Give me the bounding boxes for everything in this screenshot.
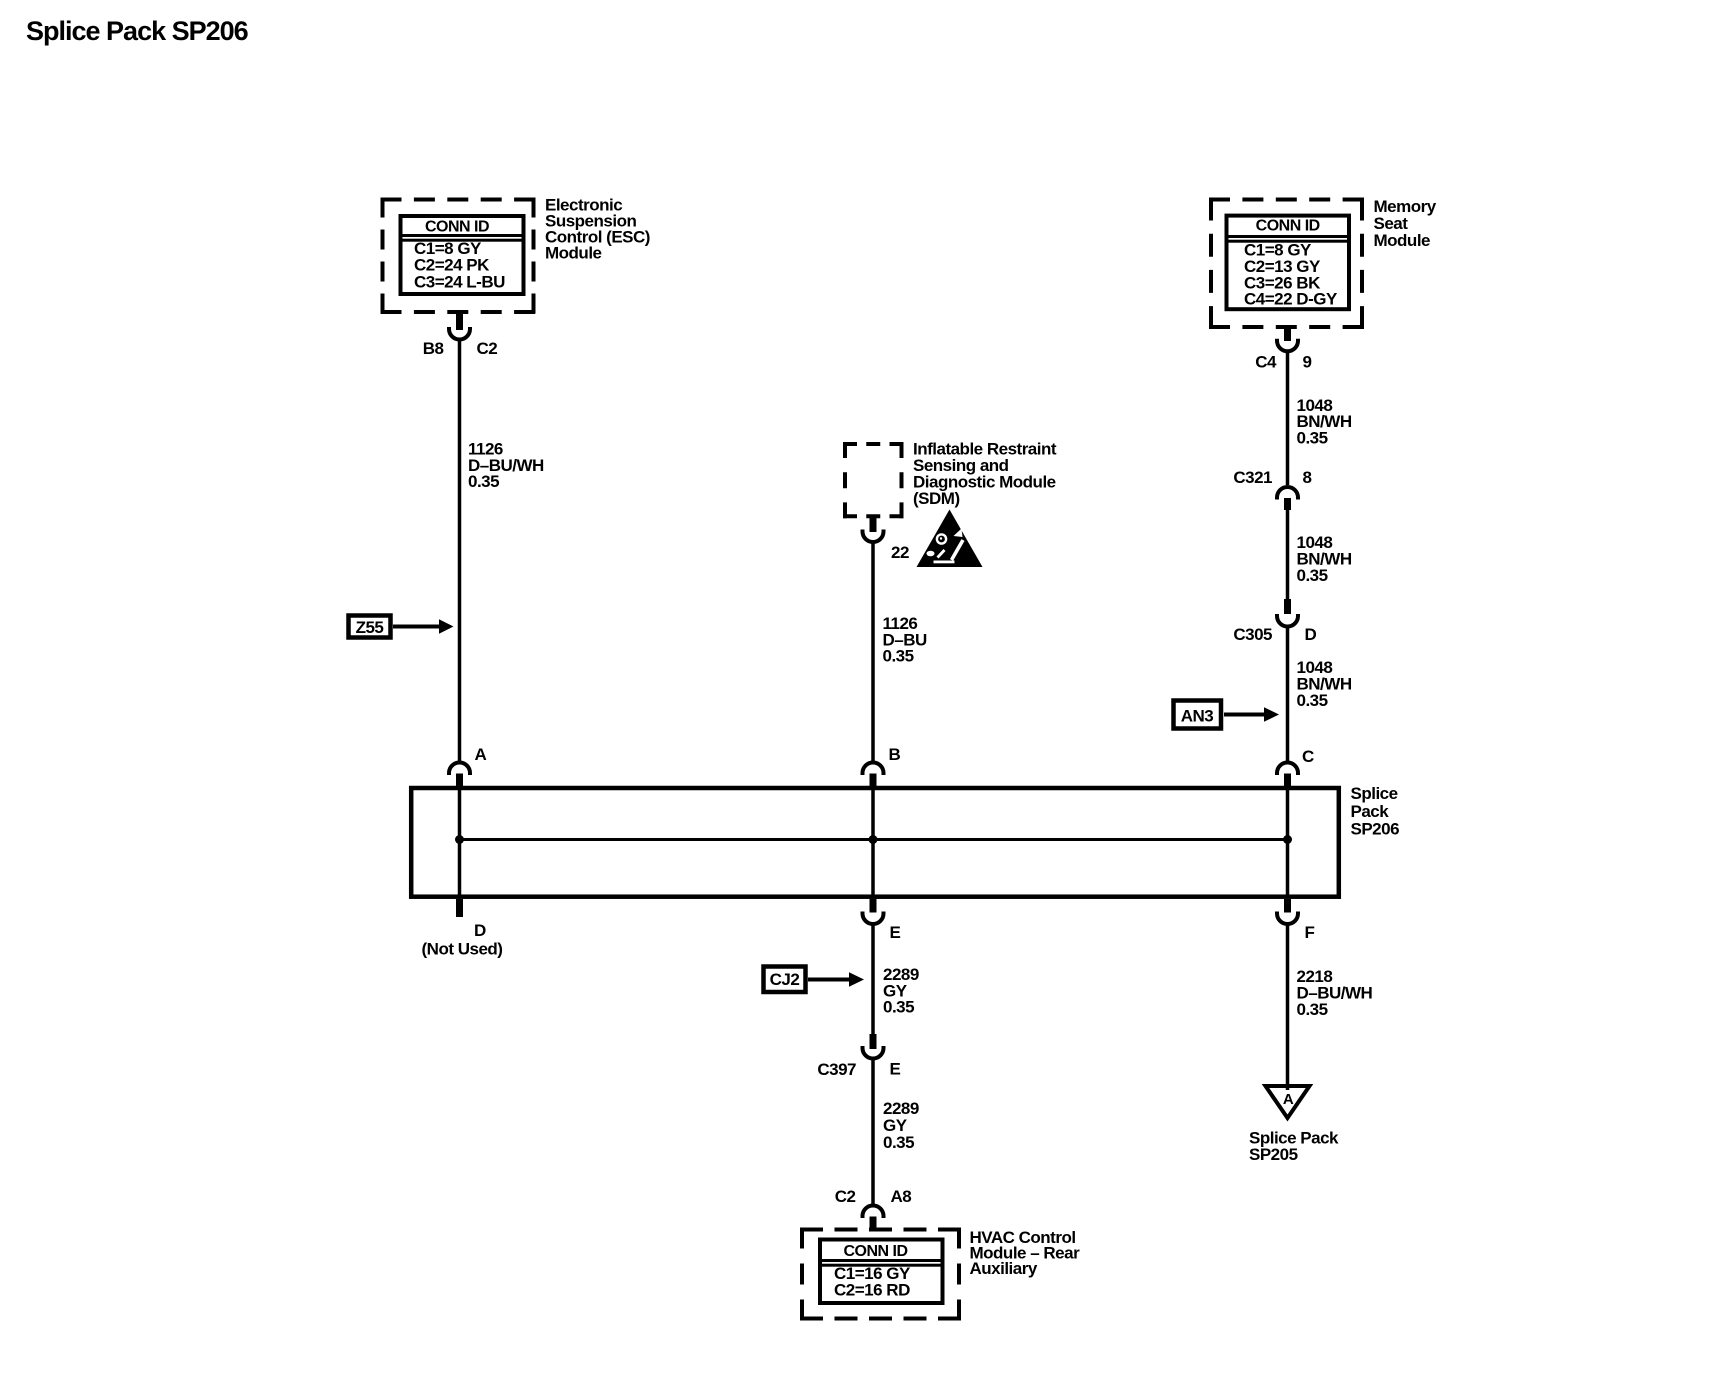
svg-text:0.35: 0.35	[1297, 566, 1328, 585]
svg-text:(SDM): (SDM)	[913, 489, 960, 508]
label wire 1048 BN/WH 0.35	[1297, 533, 1352, 585]
node F	[1277, 899, 1315, 942]
svg-text:Pack: Pack	[1351, 802, 1390, 821]
svg-text:Splice: Splice	[1351, 784, 1398, 803]
svg-text:0.35: 0.35	[1297, 1000, 1328, 1019]
svg-text:CONN ID: CONN ID	[843, 1243, 907, 1260]
svg-text:SP205: SP205	[1249, 1145, 1298, 1164]
node A	[449, 745, 487, 788]
svg-text:B: B	[889, 745, 901, 764]
module Memory Seat dashed box	[1209, 198, 1364, 330]
svg-text:0.35: 0.35	[1297, 429, 1328, 448]
svg-text:D: D	[1305, 625, 1317, 644]
svg-text:(Not Used): (Not Used)	[422, 940, 503, 959]
svg-text:E: E	[890, 923, 901, 942]
svg-text:8: 8	[1303, 468, 1312, 487]
label Inflatable Restraint Sensing and Diagnostic Module (SDM)	[913, 440, 1057, 509]
off-page reference A to splice pack SP205	[1266, 1086, 1310, 1118]
svg-text:SP206: SP206	[1351, 820, 1400, 839]
in-line connector C397 pin E	[817, 1034, 900, 1079]
svg-text:Auxiliary: Auxiliary	[970, 1259, 1038, 1278]
svg-text:0.35: 0.35	[1297, 691, 1328, 710]
connector C4 pin 9 (Memory Seat)	[1255, 329, 1311, 372]
svg-text:C305: C305	[1233, 625, 1272, 644]
label wire 1126 D-BU/WH 0.35	[468, 440, 544, 492]
net CJ2 callout	[764, 967, 865, 993]
wire 2289 GY segment 2	[871, 1059, 875, 1205]
label Splice Pack SP206	[1351, 784, 1400, 839]
label wire 1048 BN/WH 0.35	[1297, 396, 1352, 448]
svg-text:C: C	[1302, 747, 1314, 766]
svg-text:C321: C321	[1233, 468, 1272, 487]
svg-text:0.35: 0.35	[468, 472, 499, 491]
junction A	[455, 835, 464, 844]
svg-text:Splice Pack SP206: Splice Pack SP206	[26, 16, 249, 46]
wire 1048 BN/WH segment 3	[1286, 627, 1290, 761]
wire 1126 D-BU from SDM to splice B	[871, 543, 875, 762]
svg-text:A: A	[1283, 1091, 1294, 1108]
svg-text:0.35: 0.35	[883, 998, 914, 1017]
svg-text:C4=22 D-GY: C4=22 D-GY	[1244, 290, 1338, 309]
junction C	[1283, 835, 1292, 844]
svg-text:F: F	[1305, 923, 1315, 942]
svg-text:9: 9	[1303, 353, 1312, 372]
SIR warning triangle icon	[917, 510, 983, 568]
in-line connector C321 pin 8	[1233, 468, 1311, 510]
net Z55 callout	[349, 616, 454, 638]
node C	[1277, 747, 1314, 788]
svg-text:CONN ID: CONN ID	[1256, 218, 1320, 235]
svg-text:C4: C4	[1255, 353, 1277, 372]
label Splice Pack SP205	[1249, 1129, 1339, 1165]
svg-text:C397: C397	[817, 1060, 856, 1079]
conn-id table U2 (Memory Seat)	[1227, 216, 1350, 310]
svg-text:C2: C2	[835, 1187, 856, 1206]
svg-text:CJ2: CJ2	[770, 970, 800, 989]
svg-text:0.35: 0.35	[883, 647, 914, 666]
bus wire	[460, 838, 1288, 841]
svg-text:AN3: AN3	[1181, 707, 1214, 726]
svg-text:22: 22	[891, 543, 909, 562]
wire 2218 D-BU/WH	[1286, 925, 1290, 1090]
wire 1048 BN/WH segment 2	[1286, 509, 1290, 600]
label wire 2289 GY 0.35	[883, 965, 919, 1017]
svg-text:B8: B8	[423, 339, 444, 358]
svg-text:A8: A8	[891, 1187, 912, 1206]
svg-text:Module: Module	[1374, 231, 1431, 250]
svg-text:C2=16 RD: C2=16 RD	[834, 1281, 910, 1300]
node D (not used)	[422, 899, 503, 959]
net AN3 callout	[1174, 701, 1280, 729]
label wire 1126 D-BU 0.35	[883, 614, 928, 666]
connector pin 22 (SDM)	[863, 518, 909, 562]
label Memory Seat Module	[1374, 197, 1437, 250]
label wire 2289 GY 0.35	[883, 1099, 919, 1152]
svg-text:Module: Module	[545, 244, 602, 263]
wire 2289 GY segment 1	[871, 925, 875, 1035]
module HVAC dashed box	[800, 1228, 961, 1321]
svg-text:E: E	[890, 1060, 901, 1079]
label Electronic Suspension Control (ESC) Module	[545, 196, 650, 263]
wire 1048 BN/WH segment 1	[1286, 352, 1290, 486]
svg-text:0.35: 0.35	[883, 1133, 914, 1152]
label wire 1048 BN/WH 0.35	[1297, 658, 1352, 710]
svg-text:C3=24 L-BU: C3=24 L-BU	[414, 272, 505, 291]
module ESC dashed box	[381, 198, 536, 315]
connector C2 pin B8 (ESC)	[423, 314, 498, 358]
node E	[863, 899, 901, 942]
wire 1126 D-BU/WH from ESC to splice A	[458, 340, 462, 761]
conn-id table U1 (ESC)	[401, 216, 524, 294]
svg-text:C2: C2	[477, 339, 498, 358]
node B	[863, 745, 901, 788]
label HVAC Control Module - Rear Auxiliary	[970, 1228, 1081, 1278]
connector C2 pin A8 (HVAC)	[835, 1187, 912, 1228]
splice pack SP206 bus box	[411, 788, 1339, 897]
svg-text:A: A	[475, 745, 487, 764]
svg-text:CONN ID: CONN ID	[425, 219, 489, 236]
conn-id table U3 (HVAC)	[820, 1240, 943, 1304]
in-line connector C305 pin D	[1233, 599, 1316, 644]
label wire 2218 D-BU/WH 0.35	[1297, 967, 1373, 1019]
svg-text:Z55: Z55	[356, 618, 384, 637]
svg-text:D: D	[474, 921, 486, 940]
module SDM dashed box	[843, 442, 904, 518]
junction B	[869, 835, 878, 844]
